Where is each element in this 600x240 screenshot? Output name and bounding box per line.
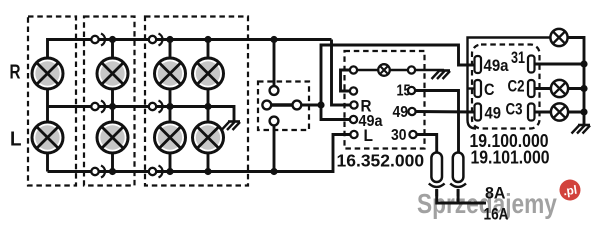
lamp: L side repeater (97, 122, 128, 153)
wire: node 49a down to terminal 49a (321, 105, 350, 120)
wire: 15 to fuse 2 (415, 91, 458, 154)
junction dot node 49a (317, 101, 324, 108)
wire: pilot row right segment (390, 69, 408, 72)
pilot lamp (378, 64, 390, 76)
flasher pill: C (475, 80, 482, 97)
junction dot bottom rail at switch (270, 168, 277, 175)
wire: L front lamp stubs (46, 107, 49, 172)
watermark Sprzedajemy.pl (417, 188, 600, 238)
wire: node 49a up and over to flasher 49a feed (y=45 run) (321, 45, 474, 105)
wire: C2 to lamp (535, 87, 552, 90)
lamp: C2 right (551, 80, 568, 97)
lamp: R side repeater (97, 58, 128, 89)
lamp: L front (32, 122, 63, 153)
fuse F1 8A (429, 153, 445, 188)
wire: top R feed rail y=39.5 (48, 40, 332, 58)
terminal circle: pilot left (350, 66, 357, 73)
wire: supply bar over watermark (437, 190, 486, 204)
wire: switch common to node 49a (302, 104, 322, 107)
lamp: hazard pilot top right (550, 29, 567, 46)
switch contact: L (bottom) (270, 117, 279, 126)
terminal circle: 49 (408, 108, 415, 115)
dashed box: hazard switch 16.352.000 (345, 51, 425, 149)
flasher unit outer box (solid top/left) (468, 38, 551, 129)
wire: right ground rail (568, 38, 584, 125)
flasher pill: 49 (475, 104, 482, 121)
flasher pill: C2 (528, 80, 535, 97)
switch contact: off (left) (262, 101, 271, 110)
wire: top rail down to terminal R (332, 40, 351, 106)
dashed box: side repeater unit (84, 17, 135, 186)
svg-text:16A: 16A (484, 205, 509, 224)
wire: 49 to flasher 49 (416, 110, 474, 113)
connector pair o) on bottom wire between box2-box3 (149, 166, 163, 178)
connector pair o) on bottom wire between box1-box2 (91, 166, 105, 178)
terminal circle: P (left y=91) (350, 87, 357, 94)
terminal circle: L (350, 131, 357, 138)
switch arm wire (271, 103, 292, 106)
switch contact: common (right) (293, 101, 302, 110)
wire: 30 to fuse 1 (417, 135, 437, 154)
terminal circle: pilot right (408, 66, 415, 73)
connector pair o) on top wire between box2-box3 (149, 34, 163, 46)
ground: right rail chassis ground (572, 125, 591, 134)
lamp: R rear 2 (193, 58, 224, 89)
wire: R front lamp bottom stub (46, 89, 49, 107)
lamp: R rear 1 (155, 58, 186, 89)
wire: pilot right to ground (415, 69, 444, 72)
connector pair o) on middle wire between box1-box2 (91, 101, 105, 113)
terminal circle: 15 (408, 87, 415, 94)
dashed box: turn signal switch (258, 82, 309, 131)
switch contact: R (top) (270, 86, 279, 95)
dashed box: front lamp unit (R/L) (28, 17, 76, 186)
wire: side repeater stubs (111, 40, 114, 172)
ground: pilot lamp ground (432, 71, 451, 80)
junction dots rear columns (166, 36, 211, 175)
wire: middle ground rail y=106.5 (48, 107, 235, 122)
flasher pill: 31 (528, 56, 535, 73)
svg-text:.pl: .pl (562, 183, 578, 199)
flasher pill: 49a (475, 56, 482, 73)
junction dot rail at 31 (580, 60, 587, 67)
wire: switch L contact drop to bottom rail (273, 126, 276, 172)
junction dots right rail (580, 85, 587, 116)
terminal circle: 49a (350, 116, 357, 123)
wire: switch R contact drop from top rail (273, 40, 276, 87)
ground: middle lamp rail chassis ground (222, 122, 241, 131)
lamp: R front (32, 58, 63, 89)
connector pair o) on middle wire between box2-box3 (149, 101, 163, 113)
wire: pilot row left segment (357, 69, 378, 72)
junction dots column box2 (109, 36, 116, 175)
connector pair o) on top wire between box1-box2 (91, 34, 105, 46)
wire: rear lamp stubs col2 (207, 40, 210, 172)
wire: fuse bottoms to supply bar (437, 189, 486, 203)
badge .pl red circle (558, 178, 582, 202)
lamp: L rear 1 (155, 122, 186, 153)
fuse F2 16A (450, 153, 466, 188)
wire: bottom L feed rail y=171.5 (48, 135, 351, 172)
terminal circle: 30 (409, 131, 416, 138)
dashed box: rear lamp unit (2x2) (145, 17, 248, 186)
lamp: C3 right (551, 103, 568, 120)
wire: C stub (468, 87, 475, 89)
svg-text:8A: 8A (485, 184, 506, 203)
flasher pill: C3 (528, 104, 535, 121)
wire: 31 to right rail (535, 63, 585, 66)
junction dot top rail at switch (270, 36, 277, 43)
wire: pilot lamp loop to terminal P (341, 70, 351, 91)
wire: C3 to lamp (535, 111, 552, 114)
dashed rounded box: flasher internals (472, 45, 540, 129)
lamp: L rear 2 (193, 122, 224, 153)
wire: rear lamp stubs col1 (169, 40, 172, 172)
terminal circle: R (350, 101, 357, 108)
